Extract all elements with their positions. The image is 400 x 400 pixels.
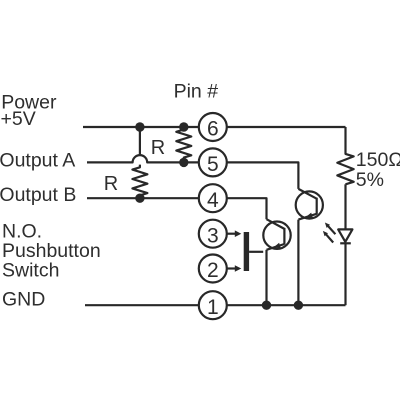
junction dot GND / Q1 emitter [262, 301, 271, 310]
svg-text:5: 5 [207, 153, 219, 176]
svg-text:3: 3 [207, 224, 219, 247]
svg-text:4: 4 [207, 189, 219, 212]
junction dot GND / Q2 emitter [294, 301, 303, 310]
pushbutton switch actuator bar [244, 232, 249, 271]
svg-text:6: 6 [207, 118, 219, 141]
arrow from pin 2 to pushbutton [226, 265, 242, 272]
svg-text:150Ω: 150Ω [356, 149, 400, 171]
pin 2 [199, 255, 227, 283]
pin 5 [199, 148, 227, 176]
svg-text:2: 2 [207, 259, 219, 282]
wire Output B rail to pin 4 and corner down to Q1 [87, 198, 267, 219]
svg-text:GND: GND [2, 289, 45, 311]
junction dot Output B / left R [135, 194, 144, 203]
resistor R (left, +5V to Output B) vertical branch with hop break [132, 127, 147, 198]
svg-text:Pin #: Pin # [174, 81, 219, 103]
svg-text:+5V: +5V [1, 108, 36, 130]
svg-text:Switch: Switch [2, 260, 59, 282]
pin 1 [199, 291, 227, 319]
pin 6 [199, 113, 227, 141]
svg-text:R: R [104, 173, 118, 195]
transistor Q2 [296, 189, 323, 305]
resistor 150 ohm 5% (right branch) [337, 127, 353, 184]
LED light emission arrows [323, 223, 336, 243]
wire Output A rail with hop over R branch, to pin 5 and corner down to Q2 [87, 155, 298, 189]
wire GND rail [85, 304, 346, 306]
svg-text:Output A: Output A [0, 149, 75, 171]
pin 3 [199, 220, 227, 248]
label "N.O. Pushbutton Switch" [2, 220, 101, 281]
wire pushbutton stem to Q1 emitter [249, 251, 263, 253]
junction dot +5V / left R [135, 122, 144, 131]
resistor R (right, +5V to Output A) [176, 127, 191, 162]
wire LED cathode to GND rail [344, 243, 346, 305]
arrow from pin 3 to pushbutton [226, 230, 242, 237]
svg-text:5%: 5% [356, 169, 384, 191]
svg-text:R: R [151, 137, 165, 159]
LED D1 (triangle + cathode bar) [338, 229, 352, 243]
wire +5V rail to pin 6 and right branch corner [83, 126, 346, 128]
junction dot +5V / right R [179, 122, 188, 131]
wire 150 ohm resistor to LED [344, 184, 346, 229]
junction dot Output A / right R [179, 158, 188, 167]
svg-text:Output B: Output B [0, 184, 76, 206]
transistor Q1 [263, 219, 290, 305]
svg-text:N.O.: N.O. [2, 220, 42, 242]
label "Power +5V" [1, 91, 57, 130]
svg-text:1: 1 [207, 296, 219, 319]
pin 4 [199, 184, 227, 212]
